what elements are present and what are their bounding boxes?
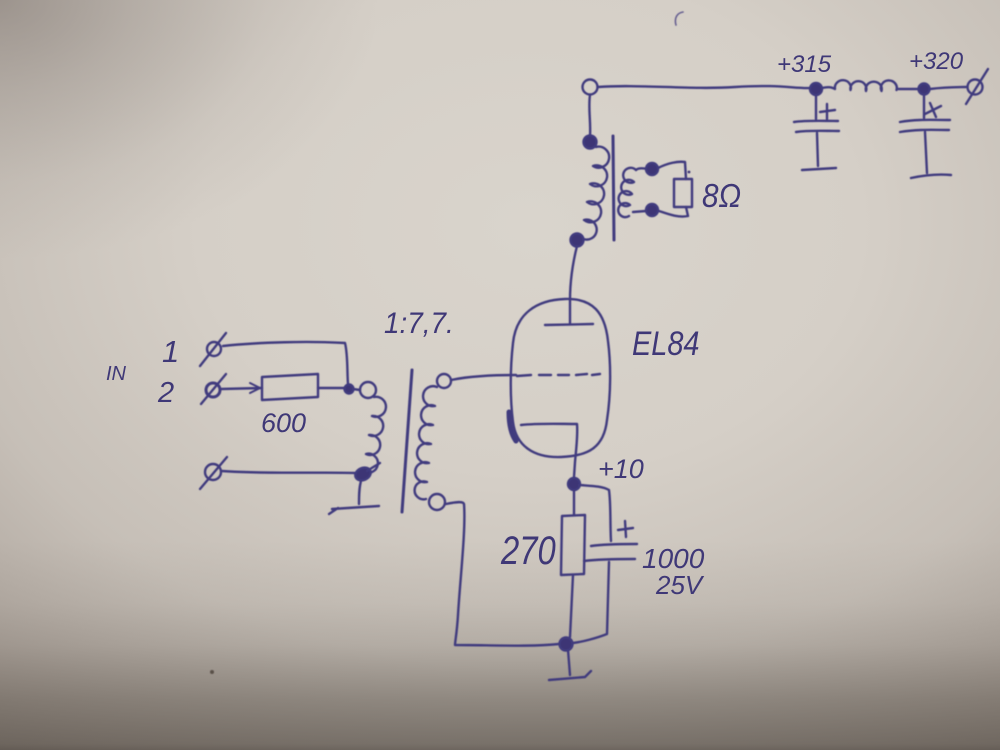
inductor L1 bbox=[822, 80, 897, 91]
node +315 bbox=[810, 83, 822, 95]
capacitor C1 + sign bbox=[820, 104, 835, 119]
wire terminal 3 to primary bottom bbox=[222, 471, 355, 473]
capacitor C2 lower lead bbox=[925, 132, 927, 173]
coil tail into blob bbox=[367, 463, 380, 471]
terminal B+ (open circle top of output transformer) bbox=[583, 80, 598, 95]
resistor 270 bottom lead bbox=[570, 575, 573, 637]
capacitor C1 plates bbox=[794, 121, 838, 122]
input terminal 1 bbox=[207, 342, 221, 356]
wire top rail to +315 node bbox=[598, 86, 811, 88]
stray pen mark top bbox=[675, 12, 683, 25]
capacitor C1 lower lead bbox=[817, 133, 818, 166]
anode lead wire bbox=[570, 246, 577, 323]
ink dot above 8ohm bbox=[688, 171, 691, 174]
output transformer core bbox=[613, 136, 614, 240]
resistor 270 top lead bbox=[573, 490, 575, 515]
output transformer secondary winding bbox=[618, 168, 647, 217]
capacitor C2 + sign (tilted) bbox=[925, 103, 941, 117]
svg-text:1: 1 bbox=[162, 334, 179, 369]
wire junction left and up to input transformer secondary bottom bbox=[446, 502, 559, 646]
svg-text:25V: 25V bbox=[655, 570, 705, 600]
svg-text:270: 270 bbox=[500, 528, 556, 573]
svg-text:+10: +10 bbox=[598, 454, 644, 484]
capacitor C2 plates bbox=[900, 120, 950, 122]
input terminal 2 bbox=[206, 383, 220, 397]
tube EL84 envelope bbox=[511, 299, 610, 457]
speck bottom left bbox=[210, 670, 214, 674]
secondary bottom dot bbox=[646, 204, 658, 216]
svg-text:EL84: EL84 bbox=[632, 324, 699, 363]
resistor 8ohm body bbox=[674, 179, 692, 207]
wire resistor 600 to junction bbox=[318, 387, 345, 389]
svg-text:+320: +320 bbox=[909, 48, 964, 75]
secondary top dot bbox=[646, 163, 658, 175]
wire to +320 node bbox=[897, 88, 918, 90]
capacitor 1000 plates bbox=[591, 544, 637, 546]
junction dot at primary top bbox=[345, 385, 354, 394]
input transformer core bbox=[402, 370, 412, 512]
node +320 bbox=[919, 84, 930, 95]
ground junction dot bbox=[560, 638, 573, 651]
input transformer secondary winding bbox=[415, 386, 437, 499]
input transformer secondary top circle bbox=[437, 374, 451, 388]
ground bar bbox=[549, 671, 591, 680]
wire junction to primary circle bbox=[353, 389, 360, 390]
svg-text:1:7,7.: 1:7,7. bbox=[384, 307, 454, 340]
wire B+ terminal down to primary bbox=[588, 95, 591, 136]
wire secondary bottom dot to coil bbox=[633, 211, 646, 212]
capacitor C1 end bar bbox=[802, 168, 836, 170]
svg-text:IN: IN bbox=[106, 363, 127, 385]
grid lead to input transformer secondary bbox=[451, 375, 516, 380]
wire terminal 1 to junction bbox=[223, 342, 348, 384]
capacitor C2 lead bbox=[923, 95, 925, 118]
output transformer primary bottom dot bbox=[571, 234, 584, 247]
capacitor 1000 + sign bbox=[618, 521, 633, 537]
input transformer primary bottom blob bbox=[353, 465, 372, 482]
resistor 600 body bbox=[262, 374, 318, 400]
ground bar input bbox=[329, 506, 379, 514]
wire secondary top to 8ohm resistor bbox=[658, 162, 686, 179]
output transformer primary winding bbox=[579, 147, 609, 240]
svg-text:2: 2 bbox=[157, 377, 174, 409]
input transformer secondary bottom circle bbox=[429, 494, 445, 510]
svg-text:+315: +315 bbox=[777, 51, 832, 78]
cathode node dot +10 bbox=[568, 478, 580, 490]
input transformer primary top circle bbox=[360, 382, 376, 398]
cathode bbox=[521, 424, 577, 477]
svg-text:600: 600 bbox=[261, 408, 306, 438]
capacitor 1000 bottom lead bbox=[573, 562, 609, 643]
wire terminal 2 to resistor 600 bbox=[221, 388, 262, 389]
wire node to cap 1000 bbox=[579, 485, 611, 541]
ground lead bbox=[568, 650, 570, 675]
resistor 270 body bbox=[561, 515, 585, 575]
wire 8ohm bottom to secondary bottom dot bbox=[659, 207, 688, 217]
capacitor C1 lead bbox=[815, 95, 817, 119]
anode bar bbox=[545, 324, 593, 325]
grid dashed line bbox=[517, 374, 600, 376]
wire to output terminal bbox=[930, 87, 966, 89]
input terminal 3 bbox=[205, 464, 221, 480]
ground below primary bbox=[359, 481, 361, 504]
output transformer primary top dot bbox=[584, 136, 597, 149]
output terminal phi bbox=[968, 80, 983, 95]
svg-text:8Ω: 8Ω bbox=[702, 178, 741, 215]
input transformer primary winding bbox=[363, 397, 386, 473]
capacitor C2 end bar bbox=[911, 175, 951, 178]
